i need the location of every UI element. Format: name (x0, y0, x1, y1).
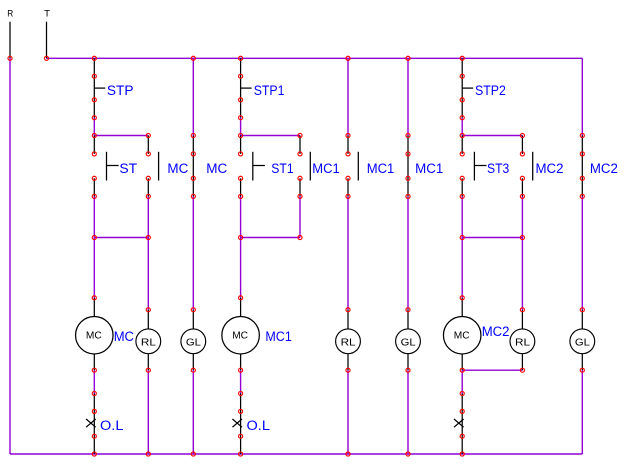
pushbutton NC STP1 (241, 58, 252, 117)
coil MC contactor (76, 298, 114, 370)
svg-text:STP2: STP2 (475, 82, 506, 98)
wire branch top rung (241, 135, 300, 137)
svg-text:MC1: MC1 (312, 160, 340, 176)
node branch row A (92, 133, 584, 137)
contact MC2 NC closed (581, 136, 583, 197)
wire GL1 rail upper (192, 58, 194, 135)
pins lamp tops (146, 308, 584, 312)
svg-text:MC1: MC1 (367, 160, 395, 176)
label MC (114, 328, 134, 344)
svg-text:MC: MC (167, 160, 188, 176)
terminal R lead (9, 22, 11, 59)
svg-text:T: T (44, 9, 50, 20)
wire branch bottom rung (94, 237, 148, 239)
node below contacts (92, 194, 584, 198)
node bottom bus junctions (92, 452, 464, 456)
wire aux rail RL1 (147, 196, 149, 309)
svg-text:MC1: MC1 (265, 328, 292, 344)
label MC (167, 160, 188, 176)
label phase T (44, 9, 50, 20)
contact MC1 NO holding blade (309, 152, 311, 181)
wire bottom bus (10, 453, 582, 455)
svg-text:MC: MC (232, 331, 248, 342)
label phase R (7, 9, 13, 20)
svg-text:RL: RL (141, 337, 156, 348)
terminal T lead (46, 22, 48, 59)
wire holding rail MC1 (299, 196, 301, 237)
overload relay O.L contact (454, 394, 464, 455)
wire coil rail mid (93, 196, 95, 297)
svg-text:MC: MC (206, 160, 227, 176)
wire below STP (93, 118, 95, 136)
node top bus junctions (8, 56, 464, 60)
contact stubs MC NO column (147, 136, 149, 197)
contact stubs ST column (93, 136, 95, 197)
label MC1 (265, 328, 292, 344)
label ST (119, 160, 137, 176)
pushbutton NO ST1 blade (253, 152, 265, 181)
svg-text:RL: RL (341, 337, 356, 348)
pushbutton NC STP (94, 58, 105, 117)
wire L1 phase R left rail (9, 58, 11, 454)
label MC1 (415, 160, 443, 176)
wire coil to overload (240, 370, 242, 393)
wire branch top rung (94, 135, 148, 137)
contact stubs MC1 NO holding column (299, 136, 301, 197)
svg-text:GL: GL (186, 337, 201, 348)
contact MC NC closed (192, 136, 194, 197)
contact stubs MC2 NO column (521, 136, 523, 197)
wire GL2 to bottom bus (407, 370, 409, 454)
wire branch bottom rung (241, 237, 300, 239)
svg-text:O.L: O.L (100, 417, 124, 433)
wire coil to overload (93, 370, 95, 393)
overload relay O.L contact (86, 394, 96, 455)
svg-text:STP1: STP1 (254, 82, 285, 98)
svg-text:STP: STP (107, 82, 134, 98)
label O.L (247, 417, 271, 433)
node branch row B (92, 235, 524, 239)
label STP2 (475, 82, 506, 98)
wire RL1 to bottom bus (147, 370, 149, 454)
wire coil rail mid (461, 196, 463, 297)
lamp GL (570, 310, 595, 371)
contact MC1 NC closed (407, 136, 409, 197)
node overload tops (92, 391, 464, 395)
wire branch top rung (462, 135, 522, 137)
label MC2 (482, 323, 510, 339)
wire RL3 rail mid (521, 196, 523, 309)
svg-text:MC2: MC2 (590, 160, 618, 176)
wire RL2 to bottom bus (347, 370, 349, 454)
wire below STP (240, 118, 242, 136)
label ST3 (487, 160, 509, 176)
pushbutton NO ST blade (107, 152, 119, 181)
lamp GL (396, 310, 421, 371)
wire top bus phase T (47, 57, 583, 59)
contact MC1 NO aux blade (357, 152, 359, 181)
lamp RL (336, 310, 361, 371)
svg-text:RL: RL (515, 337, 530, 348)
svg-text:MC: MC (86, 331, 102, 342)
wire branch bottom rung (462, 237, 522, 239)
label STP (107, 82, 134, 98)
pushbutton NC STP2 (462, 58, 473, 117)
pins contact row top (92, 152, 584, 156)
svg-text:R: R (7, 9, 13, 20)
label MC1 (312, 160, 340, 176)
svg-text:O.L: O.L (247, 417, 271, 433)
label MC1 (367, 160, 395, 176)
svg-text:GL: GL (575, 337, 590, 348)
svg-text:GL: GL (401, 337, 416, 348)
contact stubs ST3 column (461, 136, 463, 197)
contact stubs MC1 NO aux column (347, 136, 349, 197)
wire GL2 rail upper (407, 58, 409, 135)
wire GL2 rail mid (407, 196, 409, 309)
lamp GL (181, 310, 206, 371)
wire RL3 bottom to MC2 coil (462, 369, 522, 371)
svg-text:MC: MC (454, 331, 470, 342)
pins STP pushbuttons (92, 74, 464, 120)
pins overload contacts (92, 409, 464, 438)
wire coil to overload (461, 370, 463, 393)
svg-text:ST3: ST3 (487, 160, 509, 176)
label ST1 (271, 160, 293, 176)
svg-text:MC: MC (114, 328, 134, 344)
coil MC1 contactor (222, 298, 260, 370)
wire right rail middle (581, 196, 583, 309)
wire RL2 rail mid (347, 196, 349, 309)
label O.L (100, 417, 124, 433)
pins contact row bottom (92, 176, 584, 180)
wire right rail upper (581, 58, 583, 135)
lamp RL (510, 310, 535, 371)
wire below STP (461, 118, 463, 136)
label STP1 (254, 82, 285, 98)
wire right rail lower (581, 370, 583, 454)
contact stubs ST1 column (240, 136, 242, 197)
wire coil rail mid (240, 196, 242, 297)
svg-text:ST1: ST1 (271, 160, 293, 176)
label MC2 (590, 160, 618, 176)
contact MC2 NO blade (532, 152, 534, 181)
lamp RL (136, 310, 161, 371)
wire RL2 rail upper (347, 58, 349, 135)
svg-text:MC1: MC1 (415, 160, 443, 176)
wire GL1 to bottom bus (192, 370, 194, 454)
svg-text:MC2: MC2 (536, 160, 564, 176)
coil MC2 contactor (443, 298, 481, 370)
pins coil tops (92, 296, 464, 300)
label MC (206, 160, 227, 176)
svg-text:MC2: MC2 (482, 323, 510, 339)
overload relay O.L contact (232, 394, 242, 455)
label MC2 (536, 160, 564, 176)
contact MC NO blade (158, 152, 160, 181)
wire GL1 rail mid (192, 196, 194, 309)
pushbutton NO ST3 blade (474, 152, 486, 181)
svg-text:ST: ST (119, 160, 137, 176)
pins device bottoms (92, 368, 584, 372)
